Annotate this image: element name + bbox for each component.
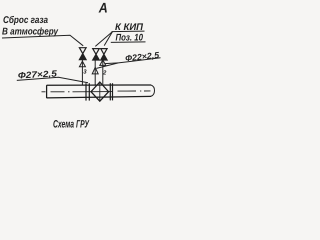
- valve V1 (vent valve, vertical hourglass): [79, 48, 86, 60]
- pipe left end cap: [46, 85, 48, 98]
- underline К КИП: [112, 30, 145, 33]
- leader from vent label to valve V1: [2, 35, 83, 46]
- pipe break symbol at right end: [151, 85, 155, 96]
- leader to V2 riser: [96, 63, 118, 69]
- flow arrow on V1 riser: [79, 61, 85, 66]
- underline Поз. 10: [111, 41, 146, 44]
- flow arrow on V2 riser: [92, 67, 98, 74]
- svg-text:2: 2: [102, 70, 107, 77]
- leader from Ф27 label to main pipe flange: [17, 77, 88, 83]
- paper background: [0, 0, 163, 133]
- flow arrow on V3 riser: [100, 60, 106, 66]
- vertical centerline through filter: [99, 82, 101, 101]
- pipe bottom line: [47, 96, 151, 98]
- filter F1 (diamond) on main pipe: [91, 82, 109, 101]
- flange pair right of filter: [109, 83, 111, 100]
- svg-text:Сброс газа: Сброс газа: [3, 15, 48, 26]
- riser pipe from V2 down to main: [94, 60, 96, 85]
- valve V3 (impulse line valve): [101, 49, 107, 60]
- underline/leader of Ф22 label: [118, 58, 160, 63]
- pipe centerline (dash-dot), right run: [118, 90, 151, 92]
- leader to V3 riser: [105, 62, 119, 65]
- riser pipe from V1 down to main: [81, 60, 83, 86]
- pipe centerline (dash-dot), left run: [42, 91, 114, 93]
- leader to valve V2: [95, 32, 112, 47]
- leader to valve V3: [104, 32, 112, 46]
- pipe top line: [47, 84, 151, 86]
- svg-text:А: А: [98, 0, 108, 16]
- flange pair left of filter: [85, 83, 87, 100]
- valve V2 (impulse line valve): [93, 49, 100, 60]
- svg-text:Схема ГРУ: Схема ГРУ: [53, 118, 89, 130]
- riser pipe from V3 down to filter: [102, 60, 104, 84]
- main gas pipe (double line): [47, 85, 151, 98]
